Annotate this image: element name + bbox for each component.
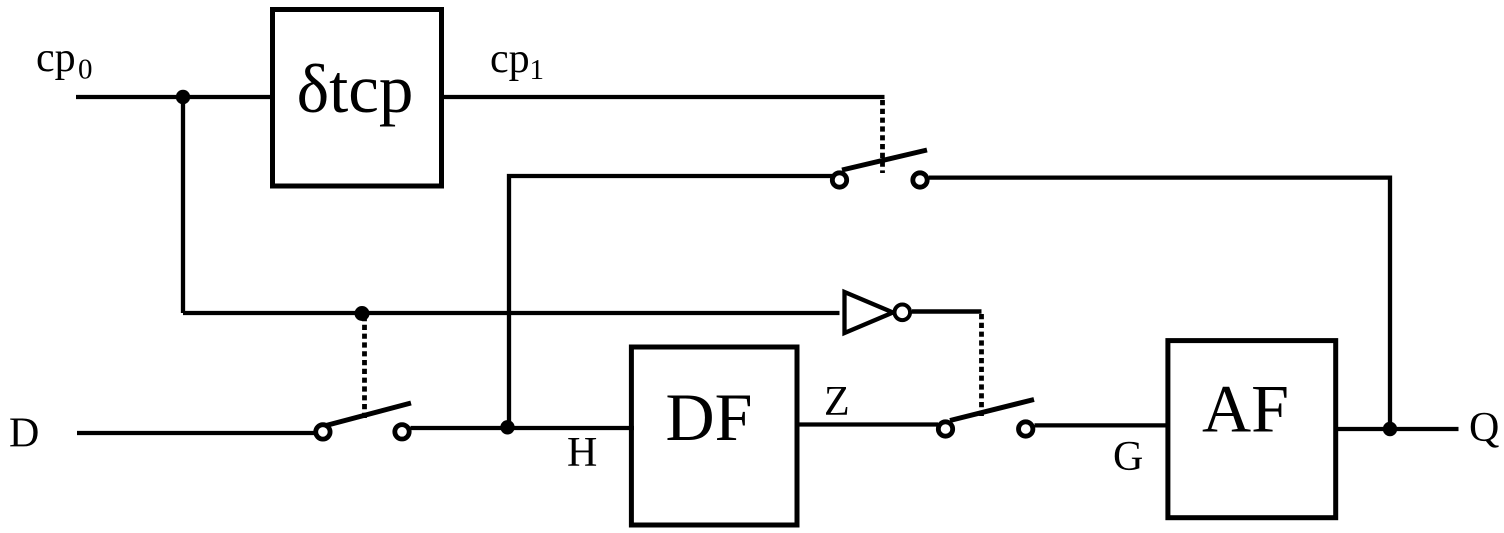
switch S2 contact left [316, 425, 330, 439]
dashed control link to switch S1 [880, 100, 885, 173]
svg-text:Z: Z [824, 379, 850, 425]
dashed control link to switch S3 [979, 314, 984, 417]
switch S3 contact left [938, 422, 952, 436]
dashed control link to switch S2 [362, 316, 367, 421]
node cp1 label [490, 36, 544, 86]
inverter U2 triangle [845, 292, 894, 333]
svg-text:DF: DF [666, 379, 753, 455]
switch S1 lever [842, 150, 927, 170]
switch S1 contact left [832, 173, 846, 187]
wire inverter output [912, 309, 982, 314]
switch S1 contact right [913, 173, 927, 187]
svg-text:0: 0 [78, 54, 93, 86]
wire cp0 branch down [181, 97, 185, 313]
wire switch S1 to Q node [929, 178, 1390, 429]
svg-text:G: G [1113, 434, 1143, 480]
svg-text:cp: cp [36, 35, 76, 81]
wire cp0 input [76, 95, 273, 99]
junction node Q [1383, 422, 1397, 436]
svg-text:1: 1 [530, 54, 545, 86]
svg-text:cp: cp [490, 36, 530, 82]
switch S3 contact right [1018, 422, 1032, 436]
flip-flop block DF box [631, 347, 797, 525]
wire DF output Z [797, 422, 938, 426]
junction cp control node [355, 306, 370, 321]
wire node H up to switch S1 [509, 176, 832, 427]
junction cp0 node [176, 90, 190, 104]
svg-text:Q: Q [1469, 405, 1499, 451]
wire AF output to Q [1336, 427, 1459, 431]
inverter U2 bubble [895, 305, 911, 321]
svg-text:D: D [9, 411, 39, 457]
node cp0 label [36, 35, 93, 86]
wire switch S3 to AF input G [1035, 423, 1169, 427]
wire switch S2 to DF input [411, 426, 635, 430]
switch S3 lever [950, 400, 1034, 421]
wire D input [77, 431, 315, 435]
svg-text:AF: AF [1202, 371, 1289, 447]
svg-text:δtcp: δtcp [297, 51, 414, 127]
wire cp1 [444, 95, 885, 99]
junction node H [500, 420, 514, 434]
wire cp control horizontal [183, 311, 840, 315]
switch S2 contact right [395, 425, 409, 439]
latch block AF box [1168, 341, 1336, 518]
switch S2 lever [326, 403, 411, 426]
delay block U1 dtcp box [273, 10, 442, 187]
svg-text:H: H [567, 430, 597, 476]
